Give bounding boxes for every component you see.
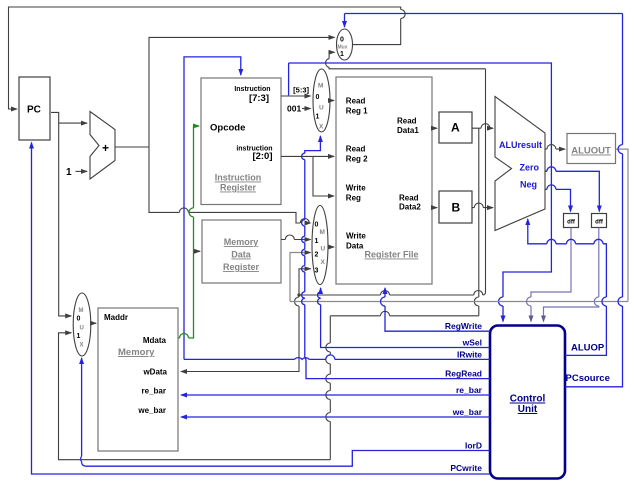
- svg-text:U: U: [321, 246, 326, 253]
- svg-text:Maddr: Maddr: [104, 313, 128, 322]
- svg-text:[7:3]: [7:3]: [249, 93, 269, 104]
- svg-text:re_bar: re_bar: [456, 385, 483, 395]
- wire: RegRead from CU, riser x304.8 up to field-mux select: [302, 136, 490, 379]
- mux write-data MUX (4-input): [312, 206, 328, 285]
- wire: gray ALUOUT long line riser to write-data-mux input 2: [290, 253, 311, 302]
- svg-text:Unit: Unit: [518, 404, 538, 415]
- svg-text:0: 0: [77, 316, 81, 323]
- wire: Maddr-mux output into memory: [91, 322, 96, 324]
- svg-text:Instruction: Instruction: [234, 86, 270, 93]
- label PCsource: [566, 373, 610, 384]
- svg-text:Register File: Register File: [364, 250, 418, 260]
- label 001: [287, 104, 301, 114]
- wire: field-mux output to Read Reg 1: [330, 100, 334, 102]
- svg-text:2: 2: [315, 252, 319, 259]
- svg-text:RegRead: RegRead: [445, 369, 482, 379]
- A register box: [439, 112, 472, 143]
- svg-text:Memory: Memory: [118, 347, 155, 358]
- mux instruction-field MUX (2-input, near IR): [313, 69, 330, 132]
- svg-text:1: 1: [316, 114, 320, 121]
- svg-text:Read: Read: [397, 117, 417, 126]
- wire: constant 001 into field-mux input 1: [302, 108, 311, 110]
- wire: MDR output to write-data-mux input 1: [281, 235, 311, 240]
- svg-text:Write: Write: [346, 232, 366, 241]
- wire: maddr net bottom horizontal to x58.5 and riser into Maddr-mux input 1: [59, 333, 331, 460]
- wire: ALUresult to ALUOUT (hop over blue x551.4): [545, 145, 565, 150]
- svg-text:Data1: Data1: [397, 126, 419, 135]
- wire: PC+1 up to PC-mux input 0: [149, 37, 335, 147]
- svg-text:ALUOP: ALUOP: [571, 343, 605, 354]
- svg-text:1: 1: [315, 238, 319, 245]
- wire: constant 1 into adder: [76, 170, 88, 172]
- svg-text:Mdata: Mdata: [143, 336, 167, 345]
- wire: instr[2:0] to Read Reg 2: [281, 155, 334, 157]
- svg-text:X: X: [319, 124, 324, 131]
- wire: maddr net horizontal (x330 to x478.8): [330, 311, 479, 316]
- svg-text:PC: PC: [27, 105, 41, 116]
- svg-text:Neg: Neg: [520, 180, 537, 190]
- svg-text:dff: dff: [595, 220, 604, 226]
- svg-text:Opcode: Opcode: [210, 123, 245, 134]
- wire: IRwite riser and entry into IR top: [184, 57, 241, 360]
- svg-text:001: 001: [287, 104, 301, 114]
- svg-text:Reg: Reg: [346, 194, 361, 203]
- label PCwrite: [450, 463, 482, 473]
- wire: dff2 output to control unit arrow 3: [544, 228, 599, 322]
- label wSel: [462, 338, 482, 348]
- svg-text:0: 0: [316, 94, 320, 101]
- wire: Read Data2 to B: [432, 207, 437, 209]
- wire: adder output: [115, 146, 149, 148]
- svg-text:Data: Data: [346, 242, 364, 251]
- svg-text:Write: Write: [346, 184, 366, 193]
- svg-text:dff: dff: [567, 220, 576, 226]
- svg-text:A: A: [451, 121, 460, 135]
- wire: re_bar from CU to memory: [181, 394, 490, 396]
- wire: zero flag to dff2: [545, 167, 599, 212]
- svg-text:B: B: [452, 201, 461, 215]
- svg-text:Data: Data: [231, 250, 252, 260]
- wire: write-data-mux output to RegFile Write Data: [328, 246, 334, 248]
- svg-text:Memory: Memory: [224, 237, 259, 247]
- svg-text:IRwite: IRwite: [457, 349, 482, 359]
- svg-text:0: 0: [340, 37, 344, 44]
- wire: maddr net descent x330 with hops over control lines: [326, 316, 330, 460]
- svg-text:1: 1: [340, 51, 344, 58]
- label re_bar: [456, 385, 483, 395]
- ALU shape: [495, 97, 545, 231]
- svg-text:X: X: [321, 259, 326, 266]
- wire: gray ALUOUT long horizontal (x290 to x628): [290, 301, 628, 303]
- svg-text:Control: Control: [510, 394, 546, 405]
- wire: Read Data1 to A: [432, 127, 437, 129]
- memory box: [98, 308, 178, 451]
- label [5:3]: [293, 86, 309, 95]
- dff 2 (Zero flag): [592, 214, 607, 228]
- wire: ALUOUT output right and down: [616, 149, 629, 301]
- svg-text:PCsource: PCsource: [566, 373, 610, 384]
- wire: PCwrite from CU to PC bottom: [32, 143, 491, 475]
- node: store-net junction: [297, 293, 300, 296]
- wire: instr[5:3] to field-mux input 0: [281, 95, 311, 97]
- wire: PC output down to Maddr-mux input 0: [59, 123, 71, 316]
- mux Maddr MUX (IorD, 2-input): [73, 293, 91, 356]
- svg-text:U: U: [319, 105, 324, 112]
- wire: A output to ALU input 1 (hop over x485.5): [472, 124, 493, 129]
- svg-text:Reg 2: Reg 2: [346, 155, 368, 164]
- svg-text:0: 0: [315, 222, 319, 229]
- register file box: [336, 77, 432, 284]
- wire: RegWrite from CU to RegFile (riser x385): [381, 288, 491, 331]
- ALUOUT box: [567, 134, 616, 164]
- wire: IorD from CU to Maddr-mux select: [81, 358, 490, 466]
- label IorD: [465, 441, 482, 451]
- wire: vertical from PCmux1-line down to store net (x485.5): [485, 69, 487, 292]
- svg-text:M: M: [79, 308, 84, 314]
- wire: B/store net to write-data-mux input 3: [299, 269, 311, 295]
- svg-text:Read: Read: [346, 145, 366, 154]
- wire: blue PCsource long horizontal (top): [345, 13, 623, 15]
- svg-text:Read: Read: [346, 97, 366, 106]
- svg-text:1: 1: [77, 333, 81, 340]
- svg-text:Instruction: Instruction: [215, 173, 262, 183]
- label ALUOP: [571, 343, 605, 354]
- wire: PC+1 down to write-data-mux input 0: [149, 147, 311, 223]
- wire: ALUOP from control unit up to ALU select: [528, 219, 607, 355]
- wire: wSel from CU to write-data-mux select (riser x320.6): [318, 288, 491, 348]
- label IRwite: [457, 349, 482, 359]
- control unit box: [490, 326, 565, 479]
- wire: A descent to maddr net: [474, 128, 478, 316]
- label we_bar: [452, 407, 483, 417]
- svg-text:Zero: Zero: [519, 163, 539, 173]
- svg-text:Data2: Data2: [399, 203, 421, 212]
- adder (+1): [90, 112, 115, 180]
- svg-text:U: U: [80, 326, 84, 332]
- dff 1 (Neg flag): [564, 214, 579, 228]
- wire: PC output to adder: [51, 112, 87, 123]
- PC register: [19, 77, 50, 140]
- svg-text:wData: wData: [142, 368, 167, 377]
- wire: store net horizontal from PCmux1 descent: [299, 291, 486, 296]
- constant 1 label: [66, 167, 72, 178]
- svg-text:Reg 1: Reg 1: [346, 107, 368, 116]
- wire: blue opcode field long horizontal to control unit: [289, 63, 552, 322]
- mux PCmux (top, 0/Mux/1): [337, 29, 353, 60]
- svg-text:re_bar: re_bar: [142, 387, 166, 396]
- wire: Mdata stub into memory data register: [194, 250, 201, 252]
- svg-text:3: 3: [315, 268, 319, 275]
- svg-text:RegWrite: RegWrite: [445, 321, 482, 331]
- wire: blue opcode-field tap down to [5:3] line: [288, 63, 290, 95]
- wire: PCsource from control unit up to PC-mux: [565, 14, 623, 387]
- svg-text:1: 1: [66, 167, 72, 178]
- wire: B output to ALU input 2 (hop over x478.8): [472, 203, 493, 208]
- wire: neg flag to dff1: [545, 185, 571, 212]
- svg-text:Register: Register: [223, 262, 260, 272]
- wire: dff1 output to control unit arrow 2: [527, 228, 572, 322]
- svg-text:Mux: Mux: [338, 45, 348, 51]
- svg-text:IorD: IorD: [465, 441, 482, 451]
- svg-text:M: M: [318, 83, 323, 90]
- svg-text:ALUOUT: ALUOUT: [571, 146, 611, 157]
- wire: green Mdata to IR opcode input: [178, 126, 199, 338]
- memory data register box: [202, 220, 281, 283]
- instruction register box: [201, 78, 281, 205]
- svg-text:Register: Register: [220, 183, 257, 193]
- svg-text:Read: Read: [399, 194, 419, 203]
- svg-text:[2:0]: [2:0]: [252, 151, 272, 162]
- label RegWrite: [445, 321, 482, 331]
- svg-text:X: X: [80, 343, 84, 349]
- wire: ALUresult feedback to PC-mux input 1: [326, 52, 486, 69]
- wire: we_bar from CU to memory: [181, 416, 490, 418]
- B register box: [439, 191, 472, 223]
- svg-text:[5:3]: [5:3]: [293, 86, 309, 95]
- svg-text:ALUresult: ALUresult: [499, 140, 542, 150]
- svg-text:wSel: wSel: [462, 338, 482, 348]
- wire: PC-mux output feedback to PC (top loop): [9, 7, 406, 109]
- wire: blue PCsource into PC-mux select (top): [344, 14, 346, 28]
- svg-text:PCwrite: PCwrite: [450, 463, 482, 473]
- wire: instr[2:0] branch to Write Reg: [313, 156, 334, 196]
- svg-text:we_bar: we_bar: [452, 407, 483, 417]
- svg-text:we_bar: we_bar: [137, 406, 166, 415]
- wire: store net down to memory wData: [181, 295, 299, 372]
- svg-text:M: M: [320, 229, 325, 236]
- label RegRead: [445, 369, 482, 379]
- svg-text:+: +: [102, 141, 109, 155]
- wire: IRwite from CU to riser x184 (with wide hop at x299-305): [184, 355, 490, 359]
